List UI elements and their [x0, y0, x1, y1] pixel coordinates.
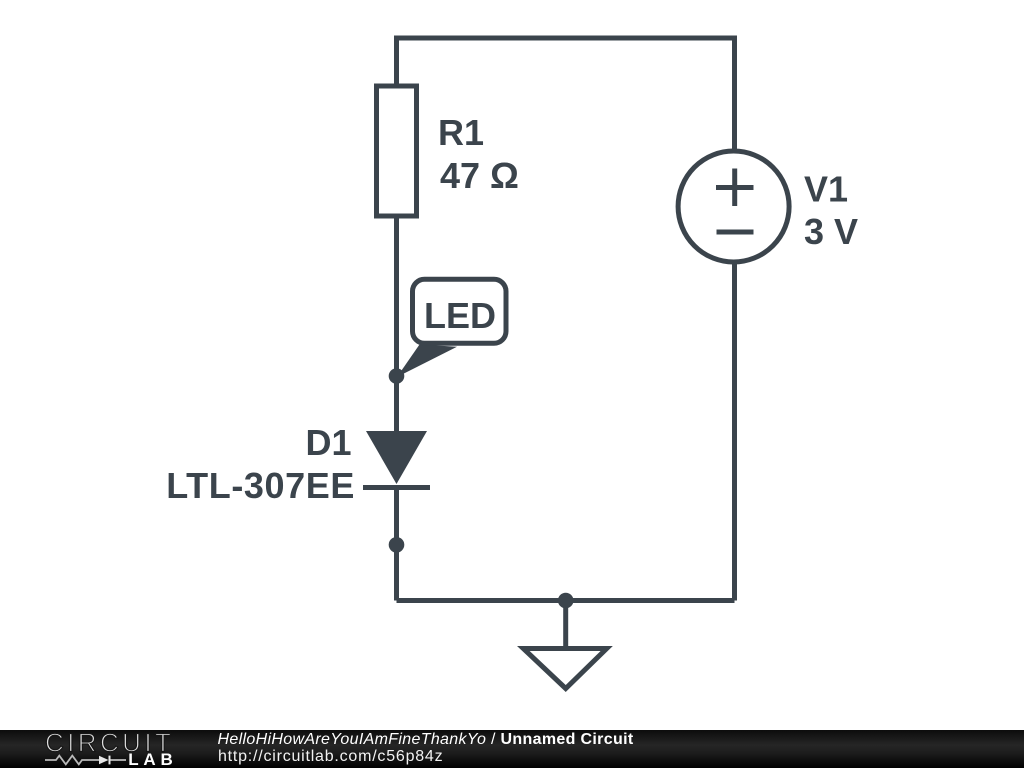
logo CIRCUIT [44, 729, 184, 755]
footer bar [0, 730, 1024, 768]
logo zigzag resistor + diode [44, 753, 134, 767]
footer title text [218, 731, 634, 749]
svg-text:D1: D1 [305, 422, 351, 463]
voltage source V1 circle [678, 151, 789, 262]
wire top loop: left riser, top wire, right riser to V1 [397, 38, 735, 151]
ground symbol [563, 601, 568, 648]
svg-text:3 V: 3 V [804, 211, 858, 252]
svg-text:47 Ω: 47 Ω [440, 155, 519, 196]
LED bubble tail [397, 345, 457, 378]
wire bottom [397, 598, 735, 603]
svg-text:V1: V1 [804, 169, 848, 210]
svg-text:LED: LED [424, 295, 496, 336]
node dot (diode cathode) [389, 537, 405, 553]
logo LAB [128, 750, 177, 770]
footer url [218, 748, 443, 766]
node dot (LED anode) [389, 368, 405, 384]
diode D1 cathode bar [363, 485, 430, 490]
LED annotation bubble [413, 279, 507, 343]
diode D1 triangle [366, 431, 427, 484]
svg-text:LTL-307EE: LTL-307EE [166, 465, 355, 506]
node dot (ground junction) [558, 593, 574, 609]
resistor R1 body [377, 86, 417, 216]
wire diode cathode to bottom wire [394, 487, 399, 601]
wire resistor bottom to diode [394, 216, 399, 431]
V1 minus sign [717, 230, 754, 235]
V1 plus sign [716, 169, 754, 207]
wire V1 bottom to bottom wire [732, 262, 737, 601]
svg-text:R1: R1 [438, 112, 484, 153]
